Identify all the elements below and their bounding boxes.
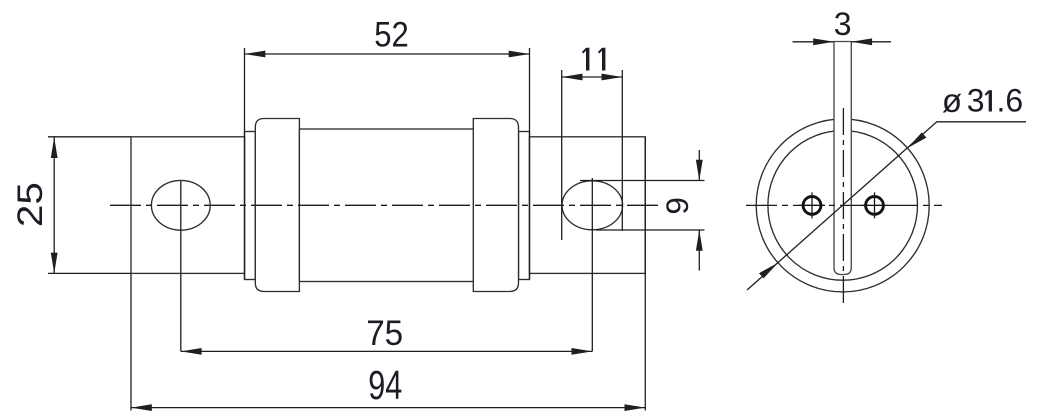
- left hole center mark / extension line: [180, 181, 182, 351]
- svg-text:52: 52: [374, 16, 409, 55]
- blade terminal left (side view): [131, 137, 245, 274]
- dimension 94 extension line right: [644, 137, 646, 411]
- dimension 94 arrow right: [625, 404, 646, 411]
- diameter arrow upper right: [907, 132, 926, 148]
- dimension label 11 (drawn digits): [583, 48, 604, 71]
- end cap ring right (side view): [519, 132, 530, 280]
- end cap flange left (side view): [255, 119, 299, 292]
- dimension 9 line upper segment: [698, 150, 700, 181]
- dimension 11 arrow left: [562, 74, 583, 81]
- dimension 9 extension line top: [580, 180, 705, 182]
- end cap ring left (side view): [245, 132, 256, 280]
- dimension 52 arrow right: [509, 51, 530, 58]
- dimension 75 arrow left: [181, 348, 202, 355]
- horizontal centerline (side view): [110, 204, 658, 206]
- dimension 52 arrow left: [245, 51, 266, 58]
- slotted hole in right blade: [562, 181, 623, 230]
- inner circle of end cap (end view): [768, 131, 918, 281]
- dimension 9 arrow down: [696, 160, 703, 181]
- diameter 31.6 leader line: [747, 122, 1026, 290]
- svg-text:3: 3: [834, 6, 852, 42]
- horizontal centerline (end view): [746, 204, 942, 206]
- blade terminal right (side view): [530, 137, 646, 274]
- dimension 3 arrow left: [851, 38, 872, 45]
- svg-text:75: 75: [366, 314, 403, 353]
- dimension 75 arrow right: [572, 348, 593, 355]
- dimension 11 arrow right: [602, 74, 623, 81]
- screw right (end view): [862, 192, 888, 218]
- dimension 11 extension line left: [561, 70, 563, 240]
- dimension 3 line right segment: [851, 41, 891, 43]
- dimension 75 line: [181, 350, 593, 352]
- slotted hole in left blade: [151, 180, 210, 230]
- dimension 52 extension line right: [529, 48, 531, 280]
- svg-text:.6: .6: [997, 83, 1024, 119]
- dimension 25 arrow down: [51, 253, 58, 274]
- dimension 25 line: [53, 137, 55, 273]
- ceramic body (side view): [299, 129, 473, 282]
- dimension 11 extension line right: [621, 70, 623, 231]
- end cap flange right (side view): [473, 119, 518, 292]
- dimension 3 arrow right: [813, 38, 834, 45]
- vertical centerline (end view): [842, 108, 844, 303]
- diameter arrow lower left: [759, 263, 778, 279]
- diameter label 31.6 part "1" (drawn digit): [985, 90, 990, 111]
- dimension 25 extension line bottom: [48, 272, 131, 274]
- dimension 25 extension line top: [48, 136, 131, 138]
- svg-text:9: 9: [659, 197, 695, 215]
- dimension 11 line: [562, 76, 623, 78]
- dimension 94 extension line left: [130, 274, 132, 411]
- dimension 9 line lower segment: [698, 230, 700, 271]
- svg-text:ø: ø: [942, 82, 962, 119]
- dimension 52 line: [245, 53, 530, 55]
- dimension 3 line left segment: [793, 41, 835, 43]
- outer circle of end cap (end view): [756, 119, 929, 292]
- screw left (end view): [799, 192, 825, 218]
- dimension 9 arrow up: [696, 230, 703, 251]
- svg-text:94: 94: [368, 362, 402, 408]
- dimension 25 arrow up: [51, 137, 58, 158]
- dimension 9 extension line bottom: [596, 229, 705, 231]
- dimension 94 line: [131, 407, 645, 409]
- right hole center mark / extension line: [591, 178, 593, 351]
- svg-text:3: 3: [967, 83, 985, 119]
- dimension 94 arrow left: [131, 404, 152, 411]
- blade terminal edge-on (end view): [834, 42, 851, 275]
- svg-text:25: 25: [11, 182, 50, 227]
- dimension 52 extension line left: [244, 48, 246, 280]
